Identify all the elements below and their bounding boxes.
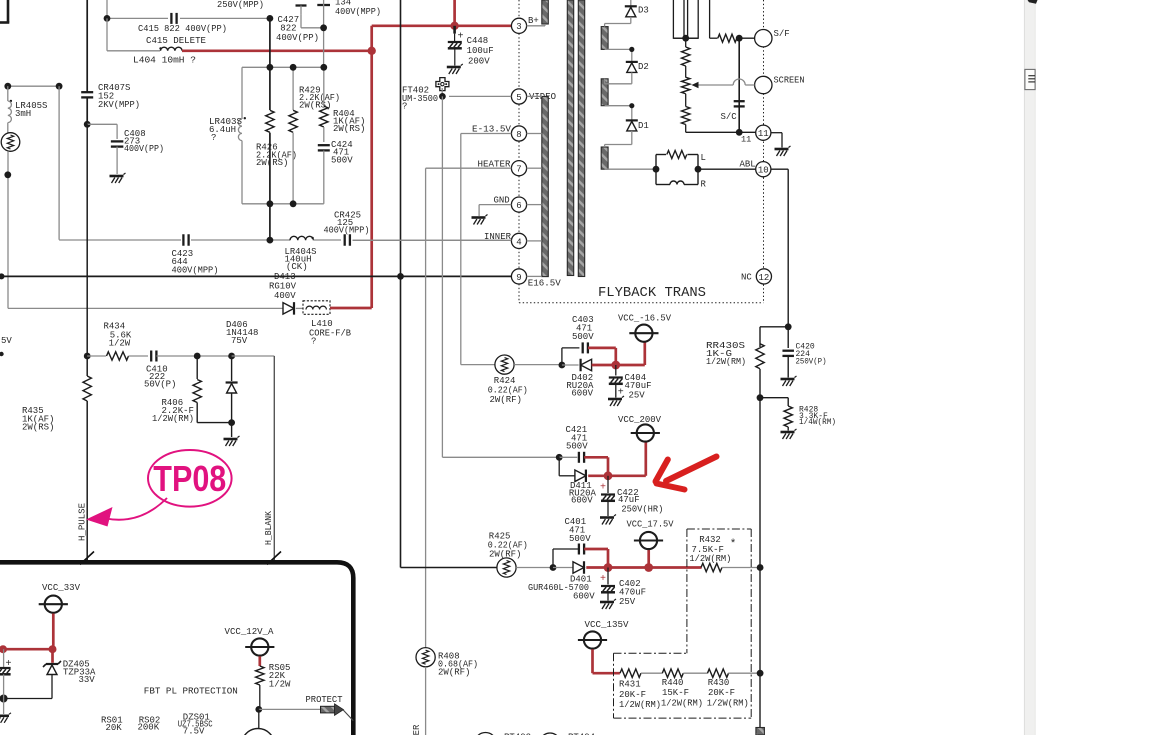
corner bracket of off-image box top-left	[7, 0, 10, 23]
wire CR407S bottom to junction	[86, 97, 88, 124]
ground under C408	[110, 175, 124, 178]
TP08 arrow	[106, 498, 167, 520]
node junction stage1	[559, 362, 566, 369]
wire pin10 right then down x=788	[771, 168, 788, 170]
wire C427 bracket	[300, 14, 302, 28]
wire stub down to C448	[453, 26, 456, 34]
svg-text:TP08: TP08	[153, 458, 226, 499]
resistor RS05	[256, 666, 264, 685]
pin 11	[736, 129, 743, 136]
wire red B+ from L404	[182, 49, 372, 52]
wire FT402 stub to node	[441, 88, 443, 96]
resistor R435	[86, 372, 88, 376]
svg-text:25V: 25V	[619, 597, 636, 607]
ground under C422	[600, 516, 614, 519]
wire red horizontal y=649	[3, 648, 53, 651]
flyback dashed outline bottom	[519, 302, 764, 304]
scrollbar button with lines	[1025, 69, 1035, 89]
diode D2	[626, 61, 638, 63]
ground bottom left	[0, 714, 9, 717]
capacitor C427 plate	[296, 4, 307, 6]
svg-text:+: +	[600, 483, 606, 494]
wire red up to VCC_-16.5V circle	[643, 343, 646, 366]
wire red C421 to corner down	[584, 456, 608, 459]
wire pin7 stub	[527, 167, 542, 169]
node red junction stage2	[604, 471, 613, 480]
capacitor C403	[582, 342, 584, 353]
node junction C415 left	[104, 15, 111, 22]
svg-text:VCC_135V: VCC_135V	[585, 620, 630, 630]
lower fixed resistor	[682, 107, 690, 125]
svg-text:7: 7	[516, 165, 521, 175]
svg-text:1/2W: 1/2W	[269, 680, 291, 690]
wire VIDEO column x=442 down to stage2	[441, 96, 443, 457]
ground under R428	[781, 431, 795, 434]
capacitor C401	[578, 544, 580, 555]
svg-text:R424: R424	[494, 376, 516, 386]
wire R440-R430	[683, 672, 707, 674]
focus block rect A	[673, 0, 684, 38]
svg-text:C448: C448	[467, 36, 489, 46]
svg-text:SCREEN: SCREEN	[774, 76, 805, 86]
connector stub hatched at bottom	[756, 728, 765, 735]
svg-text:5: 5	[516, 93, 521, 103]
svg-text:75V: 75V	[231, 336, 248, 346]
svg-text:+: +	[600, 574, 606, 585]
SCREEN terminal circle	[755, 76, 772, 93]
svg-text:L410: L410	[311, 319, 333, 329]
svg-text:500V: 500V	[572, 332, 594, 342]
svg-text:R430: R430	[708, 678, 730, 688]
node junction stage2	[556, 454, 563, 461]
fusible resistor R408	[416, 648, 435, 667]
svg-text:?: ?	[402, 102, 407, 112]
wire D3 to seg1	[630, 17, 632, 24]
wire R424 to node	[514, 364, 562, 366]
wire up to C401	[552, 549, 554, 568]
svg-text:400V: 400V	[274, 291, 296, 301]
svg-text:500V: 500V	[569, 534, 591, 544]
wire red to DZ405	[51, 649, 54, 663]
pin 7 HEATER	[511, 161, 526, 176]
svg-text:600V: 600V	[571, 389, 593, 399]
node red junction VCC17.5 tap	[644, 563, 653, 572]
svg-text:20K-F: 20K-F	[619, 690, 646, 700]
wire red VCC135 down and right	[591, 649, 594, 673]
ground under C420	[781, 378, 795, 381]
svg-text:1/2W: 1/2W	[109, 339, 131, 349]
inductor LR405S 3mH	[7, 86, 9, 101]
thick border box FBT protection	[0, 562, 353, 735]
VCC_200V symbol	[637, 424, 654, 441]
capacitor CR407S	[81, 91, 93, 93]
wire seg3 to L/R combo	[605, 168, 656, 170]
node junction FT402 / VIDEO line	[439, 93, 446, 100]
node junction protect	[255, 706, 262, 713]
wire DZ405 bottom to left	[51, 675, 53, 699]
wire combo to pin10	[698, 168, 756, 170]
wire stage3 input from x=400	[401, 567, 497, 569]
winding bar primary main	[542, 97, 549, 277]
wire red to VCC200 riser	[588, 474, 646, 477]
svg-text:(CK): (CK)	[286, 262, 308, 272]
svg-text:100uF: 100uF	[467, 46, 494, 56]
pin 5 VIDEO	[511, 89, 526, 104]
svg-text:?: ?	[311, 337, 316, 347]
svg-text:400V(MPP): 400V(MPP)	[324, 226, 370, 236]
S/F terminal circle	[755, 30, 772, 47]
svg-text:D1: D1	[638, 121, 649, 131]
diode D3	[630, 0, 632, 6]
inductor L410 CORE-F/B dashed box	[296, 307, 303, 309]
wire from 134 cap down	[323, 0, 325, 67]
svg-text:L: L	[701, 153, 706, 163]
svg-text:B+: B+	[528, 16, 539, 26]
svg-text:500V: 500V	[566, 442, 588, 452]
diode D413	[283, 303, 294, 315]
wire right leg down to S/F resistor	[709, 0, 711, 38]
wire right bus x=760 down	[759, 398, 761, 728]
svg-text:33V: 33V	[79, 675, 96, 685]
wire red from L410 to x=372	[330, 307, 372, 310]
node dot at (8,175)	[4, 171, 11, 178]
wire black vertical x=739	[738, 38, 740, 132]
svg-text:470uF: 470uF	[619, 588, 646, 598]
capacitor C410	[150, 351, 152, 362]
node junction R432 bus	[757, 564, 764, 571]
wire D2 to seg2	[631, 72, 633, 83]
svg-text:+: +	[458, 32, 464, 43]
svg-text:H_BLANK: H_BLANK	[264, 510, 274, 545]
photo resistor symbol circle w zigzag	[1, 133, 20, 152]
slash crossing H_BLANK	[267, 552, 281, 565]
capacitor C408	[111, 140, 124, 142]
svg-text:4: 4	[516, 237, 521, 247]
wire H_PULSE column x=87	[86, 124, 88, 372]
core bar 1	[567, 0, 573, 276]
svg-text:VCC_33V: VCC_33V	[42, 583, 81, 593]
wire SCREEN to wiper with hop over x=739	[745, 84, 754, 86]
node junction C408 tap	[84, 121, 91, 128]
svg-text:ABL: ABL	[740, 160, 756, 170]
winding bar secondary seg1	[601, 27, 608, 50]
svg-text:1/2W(RM): 1/2W(RM)	[619, 700, 661, 710]
svg-text:S/F: S/F	[774, 29, 790, 39]
node junction left column	[0, 695, 8, 703]
capacitor C423	[182, 234, 184, 246]
node junction D406 bottom	[228, 419, 235, 426]
svg-text:200K: 200K	[138, 723, 160, 733]
partial circles RT402 RT404 at bottom	[475, 733, 497, 735]
wire B+ to bar	[527, 25, 545, 27]
svg-text:D2: D2	[638, 62, 649, 72]
ground under D406	[224, 438, 238, 441]
wire red VCC33 down	[52, 614, 55, 650]
VCC_33V symbol	[45, 596, 62, 613]
wire bottom rail of R block	[242, 203, 324, 205]
svg-text:400V(PP): 400V(PP)	[124, 144, 164, 154]
wire pin5 to FT402 node and bar	[449, 95, 511, 97]
svg-text:R432: R432	[699, 535, 721, 545]
resistor R434	[87, 355, 106, 357]
inductor L404 10mH	[161, 47, 183, 51]
svg-text:250V(HR): 250V(HR)	[621, 505, 663, 515]
wire up to C403	[561, 348, 563, 365]
resistor R432	[701, 563, 722, 571]
svg-text:1/2W(RM): 1/2W(RM)	[152, 414, 194, 424]
svg-text:VCC_12V_A: VCC_12V_A	[225, 627, 275, 637]
flyback dashed outline left x=519	[518, 0, 520, 18]
svg-text:400V(PP): 400V(PP)	[276, 33, 319, 43]
svg-text:1/2W(RM): 1/2W(RM)	[661, 698, 703, 708]
wire red vertical to top edge at x=455	[453, 0, 456, 26]
slash crossing H_PULSE	[80, 552, 94, 565]
ground under C404	[608, 398, 622, 401]
svg-text:3: 3	[516, 22, 521, 32]
pin 10 ABL	[756, 162, 771, 177]
resistor R430	[708, 669, 729, 677]
svg-text:R: R	[701, 180, 707, 190]
wire black vertical x=400	[400, 0, 402, 568]
diode D406 1N4148	[231, 356, 233, 381]
svg-text:20K: 20K	[106, 723, 123, 733]
pin 6 GND	[511, 197, 526, 212]
wire to C408	[87, 123, 117, 125]
node red junction (372,51)	[368, 47, 376, 55]
wire red vertical x=372	[370, 26, 373, 308]
svg-text:3mH: 3mH	[15, 109, 31, 119]
svg-text:47uF: 47uF	[618, 495, 640, 505]
FT402 filter icon	[436, 78, 449, 91]
wire horizontal y=308 to D413	[8, 307, 283, 309]
svg-text:600V: 600V	[571, 496, 593, 506]
wire red bus to R432	[586, 566, 701, 569]
diode D401 (points right)	[553, 567, 573, 569]
winding bar secondary seg2	[601, 79, 608, 106]
svg-text:*: *	[730, 539, 737, 551]
wire INNER line to pin 4	[353, 239, 504, 241]
resistor R440	[662, 669, 683, 677]
resistor RR430S	[756, 344, 764, 369]
node red junction C448 tap	[450, 22, 458, 30]
wire red up to VCC_17.5V	[647, 550, 650, 568]
svg-text:470uF: 470uF	[625, 381, 652, 391]
wire CR407S top	[86, 0, 88, 92]
svg-text:7.5V: 7.5V	[183, 726, 205, 735]
node junction stage3	[550, 564, 557, 571]
svg-text:822: 822	[280, 24, 296, 34]
svg-text:500V: 500V	[331, 156, 353, 166]
wire pin4 stub	[527, 240, 542, 242]
wire from C415 node down to L404	[106, 18, 108, 50]
wire E-13.5V column x=461 down to stage1	[460, 134, 462, 365]
svg-text:250V(MPP): 250V(MPP)	[217, 0, 264, 10]
svg-text:2W(RF): 2W(RF)	[490, 395, 522, 405]
wire red diode to VCC	[592, 364, 645, 367]
wire red C401 to corner down	[584, 548, 608, 551]
resistor R428	[784, 406, 792, 427]
svg-text:L404 10mH ?: L404 10mH ?	[133, 56, 196, 66]
ground at pin11	[775, 148, 789, 151]
wire R430 to right bus	[728, 672, 760, 674]
big red arrow annotation	[656, 457, 717, 490]
wire left to RR430S column	[760, 326, 788, 328]
capacitor C404 polarized	[615, 365, 617, 376]
svg-text:HEATER: HEATER	[412, 724, 422, 735]
node red junction stage3	[604, 563, 613, 572]
resistor R429 column	[292, 67, 294, 110]
svg-text:FBT PL PROTECTION: FBT PL PROTECTION	[144, 686, 238, 697]
capacitor C421 on line	[559, 456, 577, 458]
resistor R431	[620, 669, 641, 677]
diode D402 (points left)	[562, 364, 579, 366]
node junction (324,28)	[320, 24, 327, 31]
svg-text:11: 11	[758, 129, 769, 139]
transistor circle partial at bottom	[258, 709, 260, 728]
svg-text:9: 9	[516, 273, 521, 283]
svg-text:50V(P): 50V(P)	[144, 380, 176, 390]
svg-text:8: 8	[516, 130, 521, 140]
wire R431-R440	[641, 672, 662, 674]
inductor LR404S	[273, 239, 290, 241]
wire junction bar y=86	[8, 85, 59, 87]
scrollbar track	[1024, 0, 1035, 735]
wire pin9 stub	[527, 275, 542, 277]
wire GND pin6 to ground	[479, 204, 511, 206]
svg-text:20K-F: 20K-F	[708, 688, 735, 698]
resistor to S/F	[718, 34, 737, 42]
node junction R430 bus	[757, 670, 764, 677]
node junction R434	[84, 353, 91, 360]
wire stub above C415 line	[106, 0, 108, 18]
capacitor C415	[170, 13, 172, 24]
resistor in combo	[667, 151, 687, 159]
svg-text:1/2W(RM): 1/2W(RM)	[706, 357, 746, 367]
wire red horizontal to pin 3	[372, 24, 512, 27]
capacitor CR425	[344, 234, 346, 246]
svg-text:200V: 200V	[468, 57, 490, 67]
VCC_-16.5V symbol	[635, 325, 652, 342]
pot resistor with wiper	[682, 77, 690, 94]
svg-text:0.22(AF): 0.22(AF)	[488, 386, 528, 396]
capacitor 134 400V(MPP) plate	[317, 4, 330, 6]
wire C415 top line	[107, 17, 168, 19]
svg-text:C415 822 400V(PP): C415 822 400V(PP)	[138, 24, 227, 34]
svg-text:VCC_-16.5V: VCC_-16.5V	[618, 314, 672, 324]
wire red C403 to dot	[588, 347, 616, 350]
svg-text:25V: 25V	[629, 391, 646, 401]
capacitor C420	[787, 327, 789, 348]
wire to PROTECT arrow	[259, 708, 320, 710]
wire x=59 down and right (INNER bus)	[58, 86, 60, 240]
svg-text:2W(RF): 2W(RF)	[489, 550, 521, 560]
svg-text:NC: NC	[741, 273, 752, 283]
wire pin6 stub	[527, 204, 542, 206]
inductor LR403S left side	[241, 67, 243, 119]
svg-text:RG10V: RG10V	[269, 282, 297, 292]
svg-text:E16.5V: E16.5V	[528, 279, 562, 289]
winding bar secondary seg3	[601, 147, 608, 169]
svg-text:2KV(MPP): 2KV(MPP)	[98, 100, 140, 110]
wire pin9 E16.5V bus	[0, 275, 511, 277]
winding bar primary top (B+)	[542, 0, 549, 24]
wire pin8 stub	[527, 133, 542, 135]
VCC_17.5V symbol	[640, 532, 657, 549]
svg-text:250V(P): 250V(P)	[796, 358, 827, 367]
svg-text:2W(RS): 2W(RS)	[256, 158, 288, 168]
VCC_135V symbol	[584, 631, 601, 648]
svg-text:400V(MPP): 400V(MPP)	[335, 7, 381, 17]
svg-text:10: 10	[758, 166, 769, 176]
wire HEATER column x=425.5	[426, 167, 512, 169]
svg-text:600V: 600V	[573, 592, 595, 602]
ground at pin 6	[472, 216, 486, 219]
node junction (788,327)	[785, 323, 792, 330]
svg-text:H_PULSE: H_PULSE	[78, 503, 88, 541]
pin 9 E16.5V	[511, 269, 526, 284]
ground under C448	[447, 66, 461, 69]
pin 3 B+	[511, 18, 526, 33]
diode D411 (points right)	[575, 470, 586, 482]
fusible resistor R425	[497, 558, 516, 577]
wire below circle	[7, 151, 9, 308]
svg-text:R440: R440	[662, 678, 684, 688]
wire red VCC12 stub	[258, 656, 261, 666]
node red junction stage1	[611, 361, 620, 370]
L R parallel combo box	[655, 155, 657, 185]
svg-text:PROTECT: PROTECT	[306, 695, 344, 705]
core bar 2	[578, 0, 584, 277]
svg-text:2W(RS): 2W(RS)	[22, 423, 54, 433]
svg-text:2W(RF): 2W(RF)	[438, 668, 470, 678]
zener diode DZ405	[46, 663, 58, 665]
wiper arrow	[697, 84, 733, 86]
wire from C410 row right to H_BLANK column	[232, 355, 275, 357]
inductor in combo	[656, 184, 670, 186]
node junction x=400 on pin9 bus	[397, 273, 404, 280]
pin 8 E-13.5V	[511, 126, 526, 141]
svg-text:5V: 5V	[1, 336, 12, 346]
svg-text:VCC_17.5V: VCC_17.5V	[627, 520, 675, 530]
svg-text:S/C: S/C	[721, 112, 738, 122]
wire seg1 to D2	[605, 48, 632, 50]
wire seg2 to D1	[605, 105, 632, 107]
svg-text:2W(RS): 2W(RS)	[333, 124, 365, 134]
wire D1 to seg3	[631, 131, 633, 145]
svg-text:D3: D3	[638, 6, 649, 16]
pot chain below focus block	[685, 38, 687, 47]
VCC_12V_A symbol	[251, 638, 268, 655]
svg-text:12: 12	[758, 273, 769, 283]
capacitor S/C	[734, 100, 745, 102]
svg-text:1/4W(RM): 1/4W(RM)	[799, 418, 836, 427]
wire INNER to pin4 (right part)	[353, 239, 512, 241]
resistor R426 column (black)	[269, 18, 271, 110]
svg-text:11: 11	[741, 135, 751, 145]
wire top rail of R block	[242, 66, 324, 68]
svg-text:C415 DELETE: C415 DELETE	[146, 36, 206, 46]
TP08 callout ellipse	[148, 450, 232, 507]
diode D1	[626, 119, 638, 121]
pin 4 INNER	[511, 233, 526, 248]
ground under C402	[600, 601, 614, 604]
wire R425 to node	[516, 567, 553, 569]
resistor R406	[196, 356, 198, 379]
svg-text:400V(MPP): 400V(MPP)	[172, 266, 219, 276]
pin 12 NC	[756, 269, 771, 284]
node junction R406 top	[194, 353, 201, 360]
wire down to D411	[558, 457, 560, 476]
